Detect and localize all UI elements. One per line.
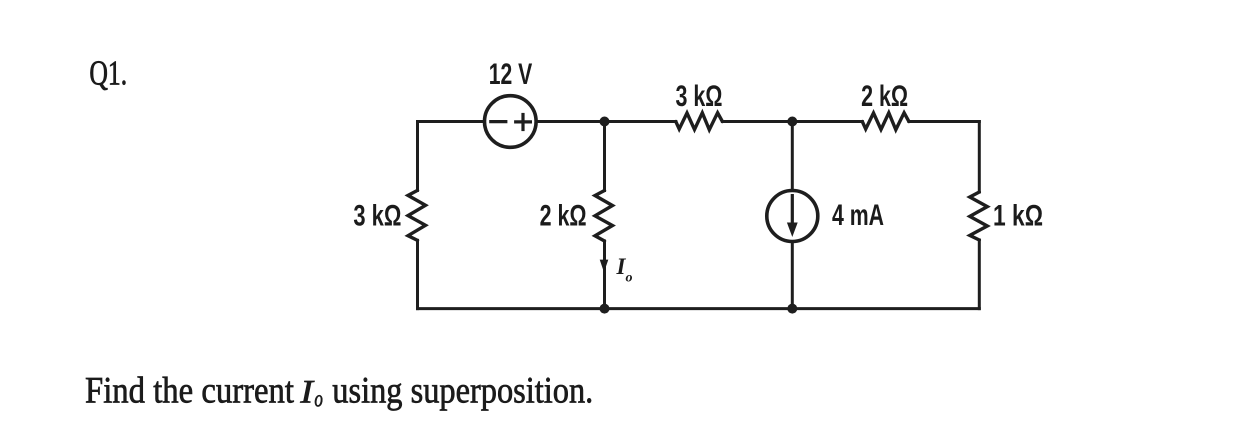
svg-text:Find the current: Find the current [85, 369, 294, 410]
svg-text:o: o [626, 271, 633, 286]
svg-text:3 kΩ: 3 kΩ [676, 80, 723, 113]
svg-text:1 kΩ: 1 kΩ [993, 200, 1043, 233]
svg-text:using superposition.: using superposition. [332, 369, 593, 410]
svg-text:I: I [299, 374, 315, 410]
svg-text:2 kΩ: 2 kΩ [540, 200, 587, 233]
svg-text:4 mA: 4 mA [832, 199, 884, 232]
svg-text:o: o [314, 387, 323, 413]
svg-text:3 kΩ: 3 kΩ [353, 200, 401, 233]
svg-text:12 V: 12 V [489, 58, 533, 91]
svg-text:2 kΩ: 2 kΩ [861, 80, 908, 113]
svg-text:Q1.: Q1. [89, 53, 127, 92]
